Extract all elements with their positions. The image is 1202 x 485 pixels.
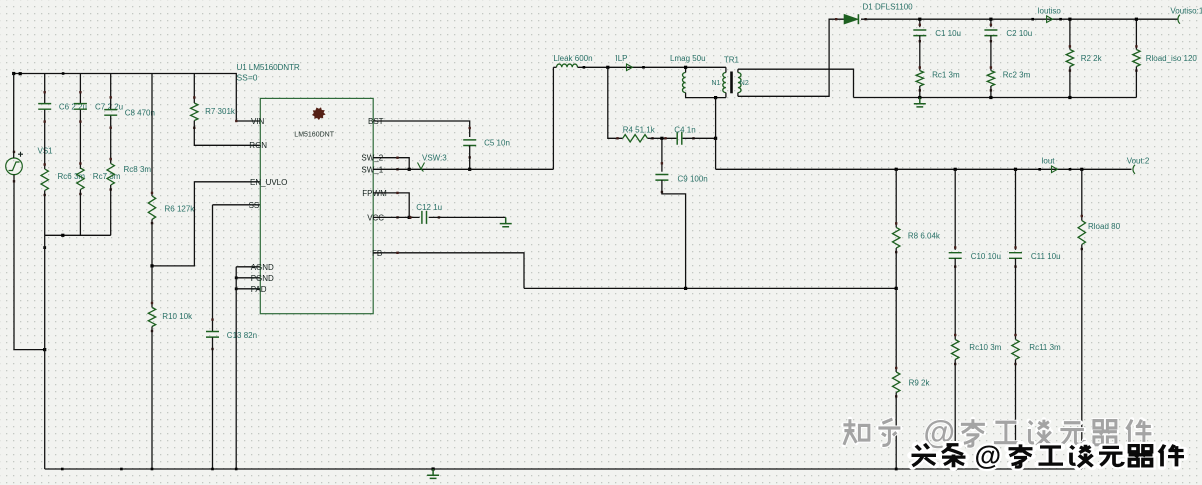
wire EN_UVLO link [152, 182, 260, 266]
junction after Lleak [583, 66, 586, 69]
capacitor C1 [913, 30, 926, 36]
op-amp U1 LM5160DNTR box [260, 98, 373, 313]
resistor Rc2 [987, 71, 994, 86]
svg-text:C12 1u: C12 1u [416, 203, 442, 212]
wire FB [373, 253, 524, 289]
wire Rc11 bottom [1015, 360, 1017, 470]
svg-text:Rc11 3m: Rc11 3m [1029, 343, 1061, 352]
junction Rc11 rail [1014, 468, 1017, 471]
wire Lleak to node [578, 66, 726, 68]
junction C11 top [1014, 168, 1017, 171]
junction Lmag top [684, 66, 687, 69]
svg-text:R9 2k: R9 2k [909, 379, 931, 388]
wire Rc2 bottom [990, 86, 992, 98]
wire Rload bottom [1081, 245, 1083, 470]
wire R7 to RON [194, 121, 260, 146]
inductor Lleak [557, 64, 578, 67]
wire gnd pins down [235, 267, 237, 469]
svg-text:D1 DFLS1100: D1 DFLS1100 [863, 3, 914, 12]
svg-text:Rc7 3m: Rc7 3m [93, 172, 121, 181]
junction R9 rail [895, 468, 898, 471]
svg-text:Lmag 50u: Lmag 50u [670, 54, 706, 63]
wire SS horizontal [213, 204, 261, 206]
junction R2 gnd [1068, 96, 1071, 99]
svg-text:C8 470n: C8 470n [125, 109, 155, 118]
wire C2 top [990, 19, 992, 27]
transformer core [730, 72, 733, 94]
junction Rload_iso rail [1135, 18, 1138, 21]
capacitor C8 [104, 110, 117, 116]
capacitor C5 [463, 140, 476, 146]
svg-text:R6 127k: R6 127k [165, 205, 196, 214]
capacitor C4 [677, 132, 682, 145]
resistor R6 [148, 196, 155, 219]
resistor Rload [1078, 221, 1085, 245]
svg-text:@: @ [975, 440, 1002, 471]
resistor Rload_iso [1133, 50, 1140, 67]
wire C6 branch [44, 74, 46, 104]
svg-text:R4 51.1k: R4 51.1k [623, 126, 656, 135]
resistor R10 [148, 308, 155, 327]
wire C11 to Rc11 [1015, 258, 1017, 339]
svg-text:PGND: PGND [251, 274, 274, 283]
svg-text:N2: N2 [740, 80, 749, 87]
svg-text:Ioutiso: Ioutiso [1037, 7, 1061, 16]
transformer TR1 N2 [738, 73, 741, 93]
junction R2 rail [1068, 18, 1071, 21]
wire R4 branch [608, 67, 623, 138]
junction VS1-C6 join [43, 348, 46, 351]
junction C9 tap [660, 137, 663, 140]
junction pri bottom [714, 96, 717, 99]
junction C5-SW [468, 168, 471, 171]
junction R8 top [895, 168, 898, 171]
wire Voutiso rail [861, 18, 1179, 20]
junction Rload top [1080, 168, 1083, 171]
svg-text:R8 6.04k: R8 6.04k [908, 232, 941, 241]
svg-text:Voutiso:1: Voutiso:1 [1170, 7, 1202, 16]
logo TI [312, 107, 326, 120]
wire R7 branch top [193, 74, 195, 104]
wire Rload_iso top [1135, 19, 1137, 49]
junction Rc join [61, 234, 64, 237]
junction C9-FB [684, 287, 687, 290]
wire Vout line [716, 168, 1132, 170]
junction C4 out [714, 137, 717, 140]
resistor Rc11 [1012, 340, 1019, 360]
wire R6 branch top [151, 74, 153, 197]
wire C5 bottom [469, 146, 471, 170]
wire Rc8 bottom [110, 185, 112, 235]
junction bottom rail marks [61, 468, 64, 471]
svg-text:C13 82n: C13 82n [227, 331, 257, 340]
junction gnd pins [235, 276, 238, 279]
junction C2 rail [989, 18, 992, 21]
wire C10 top [954, 169, 956, 250]
svg-text:Lleak 600n: Lleak 600n [553, 54, 592, 63]
wire Rc join down [44, 235, 46, 469]
wire R6 bottom [151, 219, 153, 266]
wire Rload_iso bottom [1135, 67, 1137, 98]
resistor R8 [893, 227, 900, 248]
junction FB divider [895, 287, 898, 290]
svg-text:C4 1n: C4 1n [674, 126, 695, 135]
svg-text:Iout: Iout [1041, 157, 1055, 166]
wire FPWM [373, 193, 409, 218]
capacitor C12 [422, 211, 427, 224]
svg-text:Vout:2: Vout:2 [1127, 157, 1150, 166]
svg-text:U1 LM5160DNTR: U1 LM5160DNTR [237, 63, 300, 72]
wire SW riser [552, 67, 554, 169]
svg-text:Rload_iso 120: Rload_iso 120 [1146, 54, 1198, 63]
capacitor C13 [206, 332, 219, 338]
inductor Lmag [682, 73, 685, 93]
resistor R7 [191, 103, 198, 121]
resistor Rc10 [952, 340, 959, 360]
junction FPWM-VCC [408, 216, 411, 219]
resistor Rc6 [41, 169, 48, 191]
wire VS1 bottom to rail [14, 175, 45, 350]
junction C10 top [954, 168, 957, 171]
wire iso gnd rail [854, 97, 1137, 99]
junction R4 tap [606, 66, 609, 69]
junction Rc1 rail [918, 96, 921, 99]
wire Rc join line [45, 234, 111, 236]
svg-text:Rc2 3m: Rc2 3m [1003, 71, 1031, 80]
svg-text:VIN: VIN [251, 117, 265, 126]
wire C11 top [1015, 169, 1017, 250]
svg-text:LM5160DNT: LM5160DNT [294, 132, 334, 139]
svg-text:Rc10 3m: Rc10 3m [969, 343, 1001, 352]
wire C9 bottom [662, 180, 686, 288]
resistor Rc1 [916, 71, 923, 86]
wire C1 to Rc1 [919, 36, 921, 71]
svg-text:C1 10u: C1 10u [935, 29, 961, 38]
wire R4 to C4 [648, 137, 677, 139]
svg-text:Rc8 3m: Rc8 3m [124, 165, 152, 174]
ground main rail [432, 467, 435, 470]
diode D1 DFLS1100 [844, 15, 858, 24]
wire C8 branch [110, 74, 112, 110]
wire pri-bottom riser [715, 98, 717, 170]
svg-text:SS=0: SS=0 [237, 73, 258, 83]
wire R8 top [895, 169, 897, 227]
svg-text:C2 10u: C2 10u [1006, 29, 1032, 38]
wire C10 to Rc10 [954, 258, 956, 339]
voltage source VS1 [6, 158, 23, 175]
capacitor C2 [984, 30, 997, 36]
capacitor C7 [74, 104, 87, 110]
svg-text:C10 10u: C10 10u [971, 252, 1001, 261]
transformer TR1 N1 [723, 73, 726, 93]
wire SS down to C13 [212, 205, 214, 331]
capacitor C6 [38, 104, 51, 110]
wire R2 bottom [1069, 67, 1071, 98]
junction VIN corner [235, 120, 237, 122]
wire C2 to Rc2 [990, 36, 992, 71]
wire SW_1 [373, 168, 553, 170]
wire N2 top to iso gnd [738, 69, 854, 97]
wire R9 top [895, 288, 897, 372]
resistor R2 [1066, 50, 1073, 67]
svg-text:AGND: AGND [251, 263, 274, 272]
junction Rc10 rail [954, 468, 957, 471]
wire Rload top [1081, 169, 1083, 220]
wire Rc6 bottom [44, 191, 46, 236]
wire R6 to R10 [151, 266, 153, 308]
svg-text:ILP: ILP [616, 54, 628, 63]
wire Lmag bottom [686, 93, 726, 98]
wire C12 right [429, 216, 506, 218]
svg-text:C5 10n: C5 10n [484, 139, 510, 148]
wire VS1 top [13, 74, 15, 159]
wire C7 branch [79, 74, 81, 104]
wire FB across [524, 287, 896, 289]
svg-text:C9 100n: C9 100n [678, 175, 708, 184]
wire R10 bottom [151, 327, 153, 470]
junction rail left end [12, 72, 15, 75]
wire VIN top rail [14, 74, 261, 122]
watermark zhihu grey [843, 419, 869, 445]
svg-text:C11 10u: C11 10u [1031, 252, 1061, 261]
wire bottom rail [45, 468, 1082, 470]
ground iso [914, 98, 926, 107]
wire N2 bottom to diode [738, 19, 844, 96]
svg-text:VSW:3: VSW:3 [422, 154, 447, 163]
svg-text:TR1: TR1 [724, 56, 740, 65]
svg-text:SS: SS [249, 201, 260, 210]
wire VCC [373, 216, 419, 218]
wire AGND [236, 266, 260, 268]
junction SW2-SW1 [408, 168, 411, 171]
svg-text:R10 10k: R10 10k [162, 312, 193, 321]
wire R2 top [1069, 19, 1071, 49]
wire PGND [236, 277, 260, 279]
capacitor C10 [949, 253, 962, 259]
svg-text:Rload 80: Rload 80 [1088, 222, 1121, 231]
svg-text:EN_UVLO: EN_UVLO [250, 178, 287, 187]
svg-text:R2 2k: R2 2k [1081, 54, 1103, 63]
svg-text:PAD: PAD [251, 285, 267, 294]
capacitor C11 [1009, 253, 1022, 259]
watermark toutiao black [912, 444, 937, 466]
resistor R4 [623, 135, 648, 142]
svg-text:RGN: RGN [249, 141, 267, 150]
junction R6-R10 [150, 264, 153, 267]
resistor Rc7 [77, 168, 84, 190]
svg-text:Rc1 3m: Rc1 3m [932, 71, 960, 80]
wire BST [373, 121, 470, 137]
junction C1 rail [918, 18, 921, 21]
svg-text:R7 301k: R7 301k [205, 107, 236, 116]
wire PAD [236, 288, 260, 290]
resistor R9 [893, 372, 900, 393]
wire Rc7 bottom [79, 190, 81, 236]
wire C4 right [683, 137, 716, 139]
wire R9 bottom [895, 393, 897, 470]
wire SW_2 [373, 158, 409, 170]
capacitor C9 [655, 175, 668, 181]
wire C13 bottom [212, 337, 214, 469]
wire Rc1 bottom [919, 86, 921, 98]
wire C9 top [661, 138, 663, 171]
junction Rc2 rail [989, 96, 992, 99]
wire R8 bottom [895, 248, 897, 288]
wire Rc10 bottom [954, 360, 956, 470]
wire C1 top [919, 19, 921, 27]
svg-text:N1: N1 [712, 80, 721, 87]
ground VCC [500, 217, 512, 226]
resistor Rc8 [107, 164, 114, 186]
